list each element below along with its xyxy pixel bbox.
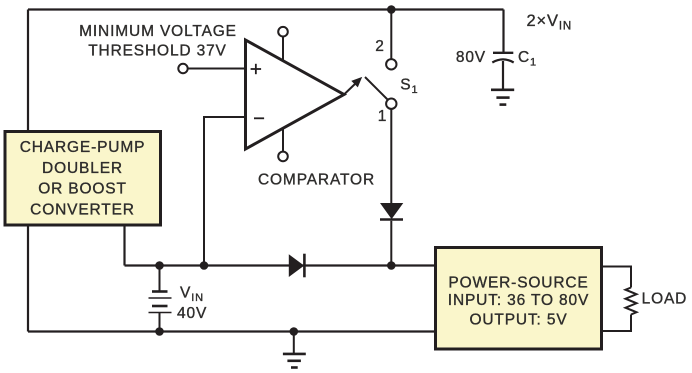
pin + label — [251, 64, 262, 74]
svg-text:INPUT: 36 TO 80V: INPUT: 36 TO 80V — [448, 292, 589, 309]
wire middle rail — [125, 264, 435, 266]
terminal circle comparator top supply — [278, 27, 288, 37]
block power-source — [436, 248, 602, 350]
svg-text:DOUBLER: DOUBLER — [42, 160, 123, 177]
diode D2 vertical — [380, 204, 403, 220]
svg-text:POWER-SOURCE: POWER-SOURCE — [448, 275, 588, 292]
svg-text:CHARGE-PUMP: CHARGE-PUMP — [20, 139, 146, 156]
label minimum voltage threshold 37V — [79, 23, 237, 60]
svg-text:80V: 80V — [456, 49, 486, 66]
svg-text:COMPARATOR: COMPARATOR — [258, 171, 375, 188]
wire stem to bottom supply circle — [282, 129, 284, 152]
wire load bottom back to power-source — [603, 315, 631, 332]
terminal circle threshold input — [178, 64, 187, 73]
node diode D2 output junction — [387, 261, 396, 270]
node battery bottom junction — [155, 327, 164, 336]
wire switch pole 1 down to diode D2 — [390, 109, 392, 204]
node ground junction bottom rail — [290, 327, 299, 336]
svg-text:1: 1 — [378, 108, 387, 125]
node inverting-input junction — [200, 261, 209, 270]
wire bottom rail — [28, 330, 434, 332]
svg-text:MINIMUM VOLTAGE: MINIMUM VOLTAGE — [79, 23, 237, 40]
resistor LOAD zigzag — [626, 288, 637, 315]
battery VIN — [149, 266, 172, 332]
wire stem to top supply circle — [282, 37, 284, 61]
op-amp U1 comparator triangle — [246, 40, 345, 149]
pin - label — [254, 117, 264, 119]
wire left vertical from top rail to charge-pump box — [27, 10, 29, 131]
wire charge-pump box right output down to middle rail — [123, 227, 125, 266]
svg-text:THRESHOLD 37V: THRESHOLD 37V — [88, 43, 227, 60]
wire threshold terminal to + input — [188, 68, 246, 70]
wire switch pole 2 to top rail — [390, 10, 392, 59]
ground under C1 — [491, 90, 514, 105]
wire - input from comparator to middle rail — [204, 117, 246, 266]
svg-text:2: 2 — [375, 38, 384, 55]
ground bottom rail — [283, 332, 306, 368]
node junction top rail / switch — [387, 5, 396, 14]
wire charge-pump box left output down to bottom rail — [27, 227, 29, 332]
svg-text:OR BOOST: OR BOOST — [38, 181, 127, 198]
diode D1 horizontal — [289, 254, 304, 278]
wire from top rail down to capacitor C1 — [502, 10, 504, 53]
node battery top junction — [155, 261, 164, 270]
wire top rail — [28, 8, 504, 10]
block charge-pump doubler or boost converter — [5, 132, 161, 226]
switch S1 throw 2 circle — [386, 59, 396, 69]
switch S1 pole 1 circle — [386, 99, 396, 109]
wire power-source output top to load — [603, 267, 631, 288]
switch S1 wiper — [365, 77, 388, 100]
svg-text:CONVERTER: CONVERTER — [30, 201, 135, 218]
terminal circle comparator bottom supply — [278, 152, 288, 162]
svg-text:40V: 40V — [177, 305, 207, 322]
wire diode D2 to middle rail — [390, 221, 392, 266]
arrow from comparator output to switch wiper — [344, 77, 362, 95]
svg-text:OUTPUT: 5V: OUTPUT: 5V — [469, 312, 567, 329]
svg-text:LOAD: LOAD — [642, 291, 688, 308]
capacitor C1 — [492, 53, 513, 90]
